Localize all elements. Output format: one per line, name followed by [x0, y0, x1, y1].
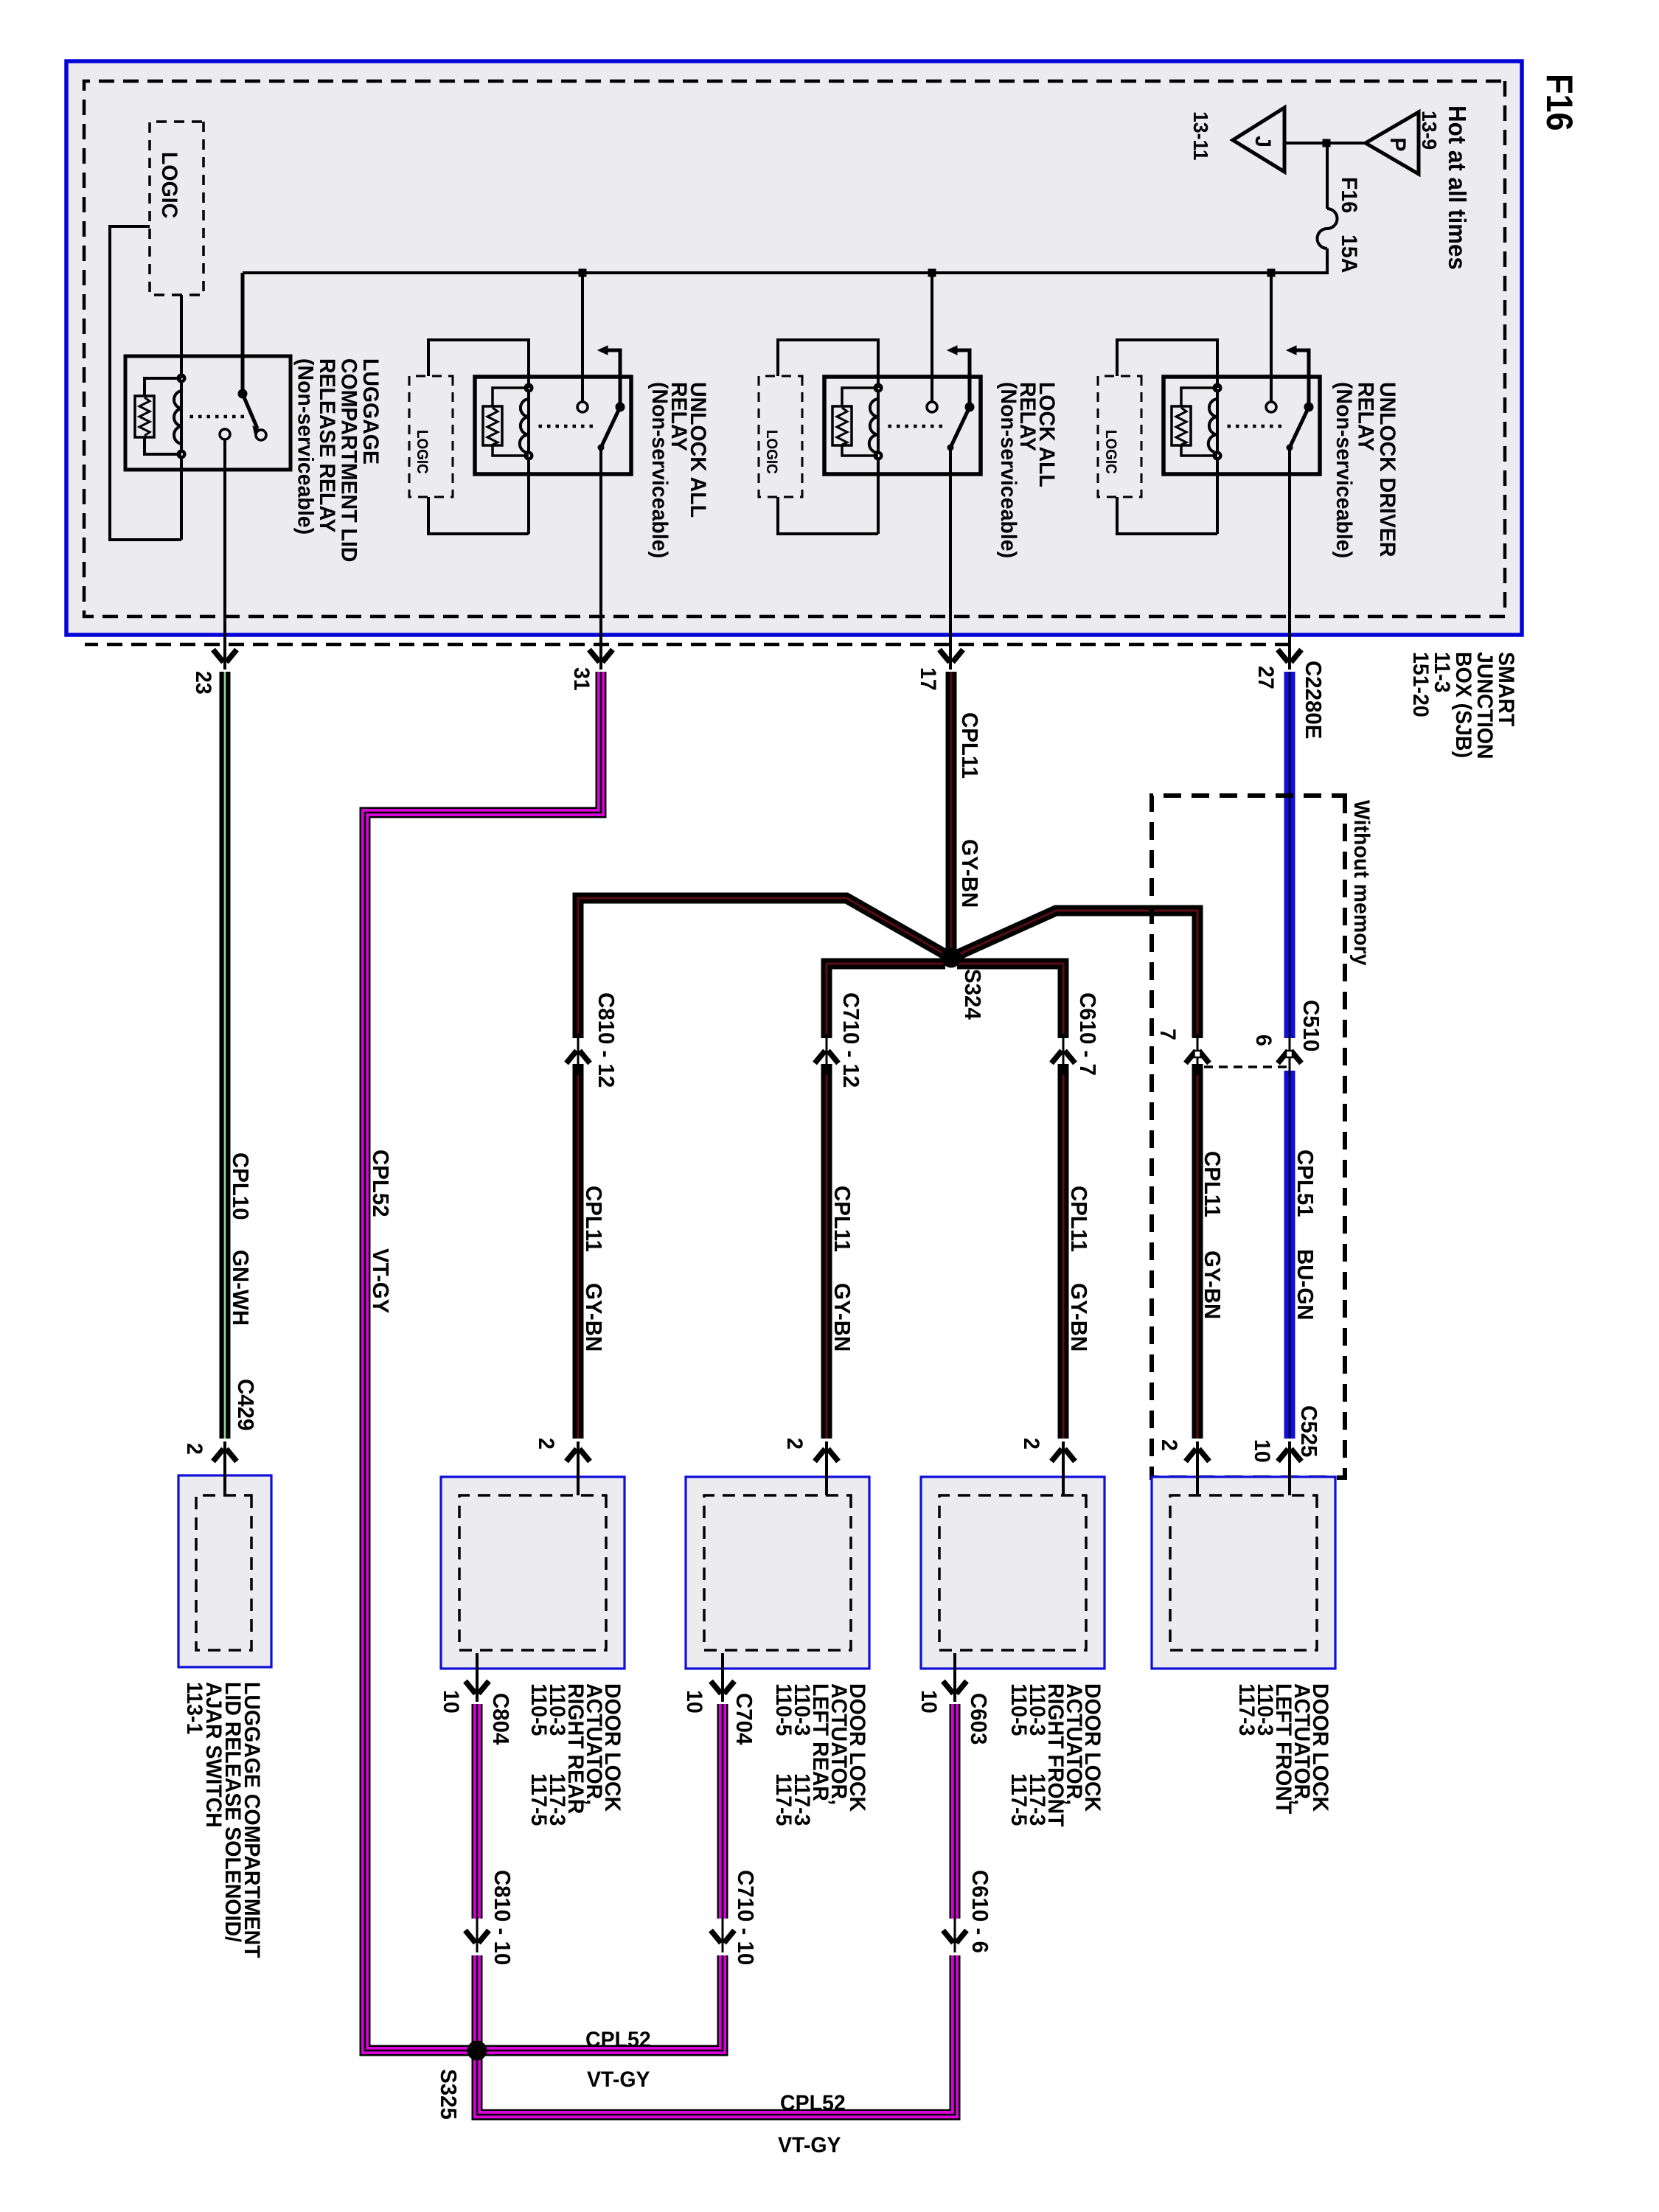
- svg-text:CPL11: CPL11: [957, 712, 982, 779]
- svg-text:2: 2: [534, 1438, 558, 1450]
- svg-text:CPL52: CPL52: [780, 2091, 846, 2115]
- svg-text:C810 - 12: C810 - 12: [594, 992, 619, 1088]
- svg-text:117-5: 117-5: [771, 1773, 796, 1826]
- svg-text:C603: C603: [966, 1693, 991, 1745]
- svg-text:7: 7: [1155, 1029, 1180, 1040]
- svg-text:S325: S325: [436, 2069, 461, 2120]
- svg-text:C710 - 12: C710 - 12: [838, 992, 863, 1088]
- svg-text:P: P: [1385, 137, 1410, 151]
- svg-text:CPL52: CPL52: [585, 2028, 651, 2052]
- svg-text:SMART: SMART: [1494, 652, 1518, 726]
- svg-text:C510: C510: [1298, 1000, 1324, 1051]
- svg-text:17: 17: [916, 667, 940, 691]
- svg-text:S324: S324: [960, 969, 985, 1020]
- svg-text:113-1: 113-1: [182, 1682, 206, 1734]
- svg-text:RELEASE RELAY: RELEASE RELAY: [315, 358, 339, 533]
- svg-text:CPL51: CPL51: [1293, 1150, 1318, 1217]
- svg-text:151-20: 151-20: [1408, 652, 1433, 717]
- svg-text:2: 2: [1157, 1439, 1181, 1451]
- svg-text:117-5: 117-5: [526, 1773, 551, 1826]
- svg-text:(Non-serviceable): (Non-serviceable): [1332, 382, 1356, 558]
- svg-text:C710 - 10: C710 - 10: [733, 1870, 758, 1965]
- svg-text:GY-BN: GY-BN: [957, 839, 982, 908]
- svg-text:C704: C704: [731, 1693, 757, 1745]
- svg-text:BOX (SJB): BOX (SJB): [1451, 652, 1475, 758]
- svg-text:110-5: 110-5: [771, 1683, 796, 1736]
- svg-text:(Non-serviceable): (Non-serviceable): [996, 382, 1020, 558]
- svg-text:117-5: 117-5: [1006, 1773, 1031, 1826]
- svg-text:LOGIC: LOGIC: [157, 152, 181, 218]
- svg-text:CPL11: CPL11: [1066, 1186, 1091, 1252]
- svg-text:C2280E: C2280E: [1301, 661, 1326, 739]
- svg-text:C804: C804: [488, 1693, 513, 1745]
- svg-text:15A: 15A: [1337, 234, 1361, 273]
- svg-text:10: 10: [917, 1690, 941, 1714]
- svg-text:C525: C525: [1296, 1405, 1321, 1457]
- svg-text:F16: F16: [1538, 74, 1579, 131]
- svg-text:10: 10: [439, 1690, 463, 1714]
- svg-text:CPL11: CPL11: [581, 1186, 606, 1252]
- svg-text:2: 2: [782, 1438, 807, 1450]
- svg-text:VT-GY: VT-GY: [368, 1248, 393, 1313]
- svg-text:Hot at all times: Hot at all times: [1444, 105, 1471, 270]
- svg-text:CPL11: CPL11: [829, 1186, 855, 1252]
- svg-text:GY-BN: GY-BN: [1200, 1251, 1225, 1319]
- svg-text:UNLOCK DRIVER: UNLOCK DRIVER: [1375, 382, 1399, 557]
- svg-text:GY-BN: GY-BN: [1066, 1283, 1091, 1352]
- svg-text:GY-BN: GY-BN: [829, 1283, 855, 1352]
- svg-text:LOGIC: LOGIC: [1102, 430, 1119, 474]
- svg-text:(Non-serviceable): (Non-serviceable): [293, 358, 317, 535]
- svg-text:2: 2: [1019, 1438, 1043, 1450]
- svg-text:13-9: 13-9: [1418, 111, 1441, 150]
- svg-text:Without memory: Without memory: [1349, 800, 1374, 966]
- svg-text:CPL52: CPL52: [368, 1150, 393, 1217]
- svg-text:GY-BN: GY-BN: [581, 1283, 606, 1352]
- svg-text:117-3: 117-3: [1234, 1683, 1259, 1736]
- svg-text:10: 10: [682, 1690, 706, 1714]
- svg-text:LUGGAGE: LUGGAGE: [358, 358, 383, 465]
- svg-text:13-11: 13-11: [1189, 111, 1213, 161]
- svg-text:2: 2: [182, 1443, 206, 1455]
- svg-text:VT-GY: VT-GY: [778, 2133, 841, 2157]
- svg-text:C610 - 6: C610 - 6: [967, 1870, 992, 1953]
- svg-text:27: 27: [1253, 666, 1278, 689]
- svg-text:CPL11: CPL11: [1200, 1151, 1225, 1217]
- svg-text:10: 10: [1250, 1439, 1274, 1463]
- svg-text:J: J: [1251, 136, 1275, 147]
- svg-text:11-3: 11-3: [1430, 652, 1454, 692]
- svg-text:C810 - 10: C810 - 10: [490, 1870, 515, 1965]
- svg-text:110-5: 110-5: [1006, 1683, 1031, 1736]
- svg-text:110-5: 110-5: [526, 1683, 551, 1736]
- svg-text:VT-GY: VT-GY: [587, 2067, 650, 2092]
- svg-text:C610 - 7: C610 - 7: [1075, 992, 1100, 1076]
- svg-text:C429: C429: [233, 1379, 258, 1430]
- svg-text:BU-GN: BU-GN: [1293, 1249, 1318, 1320]
- svg-text:6: 6: [1251, 1034, 1276, 1046]
- svg-text:JUNCTION: JUNCTION: [1472, 652, 1497, 759]
- svg-text:F16: F16: [1337, 177, 1361, 213]
- svg-text:RELAY: RELAY: [1353, 382, 1377, 451]
- svg-text:GN-WH: GN-WH: [228, 1250, 253, 1326]
- svg-text:31: 31: [569, 667, 594, 691]
- svg-text:23: 23: [191, 671, 215, 695]
- svg-text:COMPARTMENT LID: COMPARTMENT LID: [336, 358, 361, 562]
- svg-text:CPL10: CPL10: [228, 1152, 253, 1220]
- svg-text:(Non-serviceable): (Non-serviceable): [647, 382, 672, 558]
